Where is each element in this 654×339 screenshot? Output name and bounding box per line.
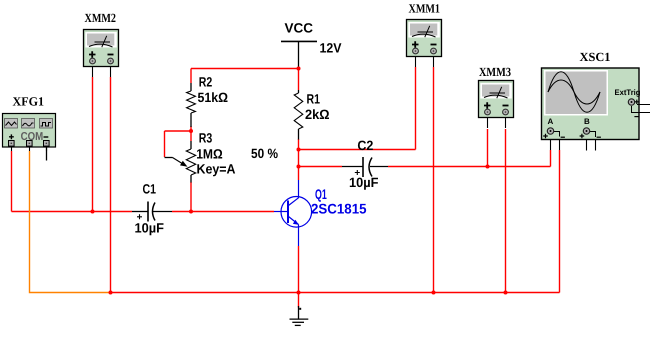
svg-text:2kΩ: 2kΩ — [305, 107, 330, 122]
svg-text:A: A — [548, 117, 554, 126]
svg-text:XMM2: XMM2 — [85, 11, 117, 25]
svg-text:10µF: 10µF — [349, 175, 379, 190]
svg-text:XMM1: XMM1 — [409, 2, 441, 16]
svg-text:C1: C1 — [143, 182, 157, 197]
svg-text:XMM3: XMM3 — [479, 65, 511, 79]
svg-text:12V: 12V — [320, 41, 342, 56]
svg-text:COM: COM — [21, 131, 44, 143]
svg-text:ExtTrig: ExtTrig — [615, 88, 641, 97]
svg-text:R1: R1 — [307, 92, 321, 107]
svg-text:C2: C2 — [357, 138, 373, 153]
svg-text:VCC: VCC — [285, 21, 314, 36]
svg-text:Key=A: Key=A — [197, 162, 236, 177]
svg-text:R2: R2 — [199, 75, 213, 90]
svg-text:XFG1: XFG1 — [13, 95, 45, 109]
svg-text:1MΩ: 1MΩ — [196, 147, 223, 162]
svg-text:50 %: 50 % — [251, 146, 278, 161]
svg-text:XSC1: XSC1 — [580, 50, 611, 64]
svg-text:51kΩ: 51kΩ — [198, 90, 229, 105]
svg-text:2SC1815: 2SC1815 — [311, 201, 367, 217]
svg-text:R3: R3 — [199, 131, 213, 146]
svg-text:10µF: 10µF — [135, 221, 165, 236]
svg-text:B: B — [584, 117, 590, 126]
